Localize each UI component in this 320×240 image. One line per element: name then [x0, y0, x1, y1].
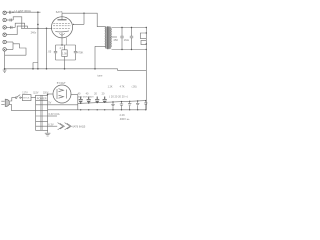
svg-text:L1 ANT 300Ω: L1 ANT 300Ω	[15, 9, 31, 13]
transformer T1 secondary	[110, 28, 113, 47]
node B	[37, 28, 39, 30]
node bus2	[32, 68, 34, 70]
wire sec top bus	[112, 27, 147, 29]
jack J4	[3, 33, 6, 36]
wire HV to V2	[48, 93, 53, 95]
wire plug bottom	[9, 104, 36, 110]
switch S1	[15, 97, 17, 99]
svg-text:40: 40	[86, 92, 89, 95]
svg-text:INTLK: INTLK	[23, 97, 30, 99]
jack J3	[3, 26, 6, 29]
svg-text:20: 20	[94, 92, 97, 95]
wire sec bottom bus	[112, 49, 147, 51]
capacitor C9	[87, 97, 91, 111]
ground T2	[45, 130, 51, 136]
svg-text:6.3V 0.6A: 6.3V 0.6A	[49, 113, 60, 116]
svg-text:20: 20	[102, 92, 105, 95]
heater tap	[48, 115, 57, 117]
svg-text:(.05): (.05)	[132, 86, 137, 89]
svg-text:6AT6 6AQ5: 6AT6 6AQ5	[72, 126, 85, 129]
wire plug top	[9, 98, 16, 101]
wire cathode stub	[61, 33, 63, 45]
wire J3 lead	[6, 26, 15, 28]
capacitor C4	[54, 45, 57, 60]
coil L1 loops	[5, 44, 26, 55]
wire V2 output	[71, 95, 78, 110]
speaker jack	[140, 28, 146, 50]
svg-text:117V: 117V	[22, 92, 28, 95]
jack J6	[3, 48, 6, 51]
svg-text:( 20 20 20 20 +): ( 20 20 20 20 +)	[109, 94, 128, 98]
svg-text:4.7K: 4.7K	[120, 86, 125, 89]
svg-text:115V: 115V	[33, 93, 39, 95]
wire step3	[17, 26, 27, 35]
wire plate to OT	[62, 13, 106, 27]
svg-text:450: 450	[113, 38, 118, 42]
tube V2 plates	[56, 89, 58, 99]
capacitor C7	[130, 28, 133, 50]
wire screen lead	[74, 23, 85, 25]
transformer T2 core	[41, 95, 42, 130]
node plate	[83, 13, 84, 14]
tube V1 plate stub	[61, 13, 63, 20]
wire R3 to bus	[64, 60, 66, 69]
B+ bus	[78, 101, 147, 104]
wire vertical R1	[37, 12, 39, 69]
wire top antenna	[6, 11, 40, 13]
node bus6	[94, 68, 96, 70]
capacitor C11	[103, 97, 107, 111]
wire screen bar	[83, 13, 85, 24]
capacitor C15	[136, 100, 139, 110]
wire J5 lead	[6, 41, 13, 43]
plug P1 body	[5, 99, 9, 106]
transformer T1 core	[105, 27, 111, 49]
capacitor C1	[9, 11, 11, 14]
capacitor C10	[95, 97, 99, 111]
transformer T1 primary	[104, 27, 107, 48]
node R3 top	[61, 44, 62, 45]
node bus3	[37, 68, 39, 70]
connector arrows	[58, 123, 72, 130]
capacitor C3	[11, 26, 13, 29]
heater line	[48, 125, 58, 127]
capacitor C8	[79, 97, 83, 111]
wire filament stub	[66, 38, 68, 45]
svg-text:470K: 470K	[77, 51, 83, 55]
resistor R3	[62, 45, 67, 60]
wire OT primary bottom	[95, 45, 106, 47]
wire grid line	[21, 27, 52, 29]
capacitor C2	[10, 19, 12, 22]
svg-text:320V: 320V	[43, 93, 49, 95]
svg-text:6AT6: 6AT6	[56, 10, 63, 14]
jack J5	[3, 40, 6, 43]
svg-text:4.7: 4.7	[60, 47, 64, 50]
node top wire	[12, 12, 13, 13]
transformer T2 frame	[36, 95, 48, 130]
svg-text:1.2K: 1.2K	[108, 86, 113, 89]
wire primary return	[94, 46, 96, 69]
capacitor C12	[111, 101, 114, 110]
svg-text:5Y3GT: 5Y3GT	[57, 81, 66, 85]
wire coil to bus	[33, 63, 38, 69]
wire J6 to bus	[4, 51, 6, 69]
svg-text:400V ≡+: 400V ≡+	[120, 117, 130, 121]
node bus5	[64, 68, 66, 70]
capacitor C16	[144, 100, 147, 111]
svg-text:450V 450V 450V: 450V 450V 450V	[77, 97, 94, 99]
node bus4	[46, 68, 48, 70]
wire J6 lead	[6, 42, 13, 49]
node A	[37, 11, 39, 13]
ground	[3, 69, 7, 73]
svg-text:40: 40	[78, 92, 81, 95]
svg-text:2.2K: 2.2K	[120, 113, 126, 117]
capacitor C14	[128, 101, 131, 111]
wire step2	[15, 23, 24, 28]
capacitor C13	[120, 101, 123, 111]
wire vertical R2	[46, 28, 48, 69]
transformer T2 taps	[36, 100, 48, 126]
svg-text:1.5K: 1.5K	[62, 52, 67, 55]
wire J4 lead	[6, 34, 17, 36]
capacitor C5	[74, 45, 77, 60]
wire step1	[13, 17, 22, 29]
svg-text:POWER: POWER	[37, 96, 47, 100]
wire J2 lead	[6, 19, 13, 21]
svg-text:6.3V: 6.3V	[48, 123, 54, 127]
cathode network box	[56, 45, 76, 60]
tube V1 cathode	[55, 31, 69, 32]
filament line	[48, 104, 78, 106]
node C	[46, 28, 48, 30]
node bus1	[4, 68, 6, 70]
tube V1 grids	[53, 23, 71, 28]
jack J1	[3, 11, 6, 14]
tube V1 envelope	[51, 17, 72, 38]
svg-text:.05: .05	[48, 50, 52, 54]
fuse box	[21, 97, 36, 99]
capacitor C6	[120, 28, 123, 50]
svg-text:240v: 240v	[31, 30, 37, 34]
jack J2	[3, 18, 6, 21]
tube V2 envelope	[53, 85, 71, 103]
svg-text:tone: tone	[98, 75, 103, 78]
ground bus lower	[48, 109, 147, 111]
svg-text:16Ω: 16Ω	[124, 38, 129, 42]
tube V1 plate	[58, 19, 67, 21]
plug P1 prongs	[1, 101, 4, 104]
wire sec tap	[112, 36, 118, 38]
ground bus	[5, 69, 147, 71]
text labels (smudges)	[15, 9, 137, 129]
wire right riser	[145, 50, 147, 110]
svg-text:5V: 5V	[48, 102, 51, 105]
